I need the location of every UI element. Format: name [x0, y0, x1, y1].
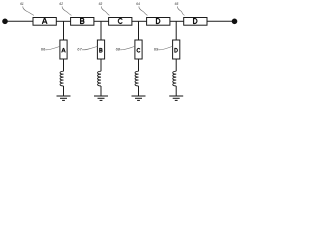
svg-text:62: 62: [59, 2, 63, 6]
svg-text:68: 68: [116, 47, 121, 52]
svg-text:66: 66: [41, 47, 46, 52]
svg-text:61: 61: [20, 2, 24, 6]
svg-text:67: 67: [77, 47, 82, 52]
svg-text:64: 64: [136, 2, 140, 6]
svg-text:65: 65: [175, 2, 179, 6]
svg-text:69: 69: [154, 47, 159, 52]
svg-text:63: 63: [99, 2, 103, 6]
